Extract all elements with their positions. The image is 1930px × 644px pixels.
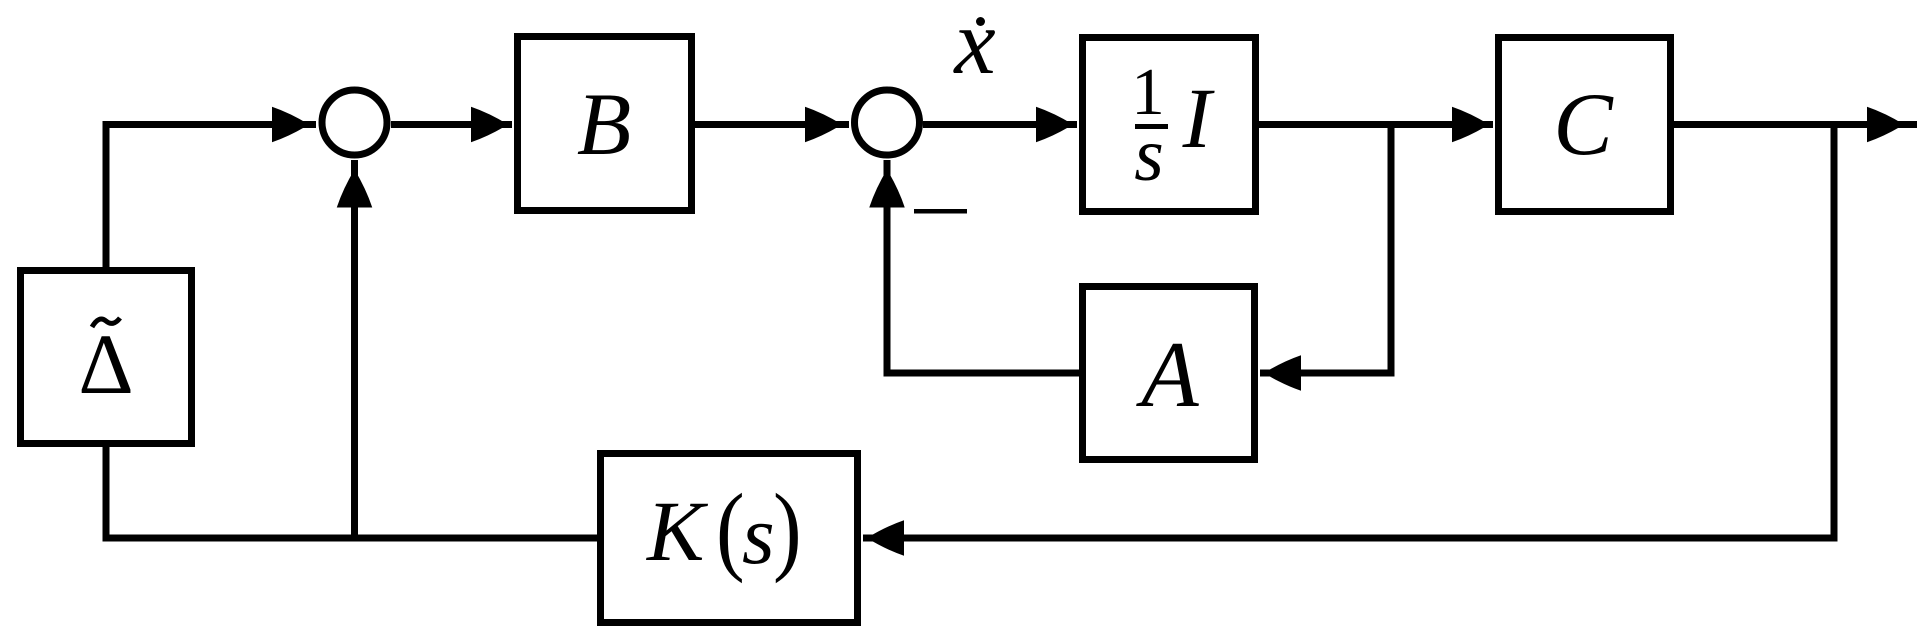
block A [1083,287,1255,460]
wire: block B to summing node S2 [695,121,849,128]
svg-text:K: K [645,483,709,579]
arrowhead into integrator block [1036,107,1073,143]
svg-text:s: s [1134,113,1164,197]
integrator block 1/s I [1083,38,1256,212]
output arrowhead [1867,107,1904,143]
arrowhead into block B [471,107,508,143]
block B [518,37,692,211]
wire: uncertainty output up from Delta-tilde top, then right into summing node S1 [106,125,316,271]
block K(s) [601,454,858,623]
wire: summing node S1 to block B [391,121,512,128]
svg-text:I: I [1182,70,1215,166]
arrowhead into summing node S2 (left input) [805,107,842,143]
dot of x-dot [976,17,985,26]
summing node S2 [855,90,920,155]
fraction bar [1135,124,1168,129]
wire: integrator to block C with branch node down to A [1259,121,1493,128]
svg-text:): ) [773,475,802,585]
wire: branch from integrator output down and left into block A [1260,125,1391,374]
svg-text:Δ: Δ [78,316,133,412]
arrowhead into summing node S1 (bottom input) [337,170,373,208]
svg-text:x: x [952,0,995,94]
svg-text:A: A [1135,323,1199,427]
arrowhead into block K(s) (right input) [867,520,904,556]
block C [1499,38,1671,212]
wire: feedback from output branch down and left into K(s) [863,125,1834,539]
arrowhead into block A (right input) [1264,355,1301,391]
wire: summing node S2 to integrator block [923,121,1077,128]
arrowhead into summing node S1 (left input) [272,107,309,143]
summing node S1 [322,90,387,155]
block Delta-tilde [21,271,192,444]
svg-text:(: ( [716,475,745,585]
svg-text:B: B [577,76,631,174]
arrowhead into summing node S2 (bottom input) [869,170,905,208]
wire: block A output left then up into summing node S2 bottom [887,160,1079,373]
wire: branch from bottom feedback up into summing node S1 bottom [351,160,358,538]
tilde above Delta [92,318,120,327]
arrowhead into block C [1452,107,1489,143]
minus sign at S2 bottom input [914,209,967,214]
wire: block C to output with feedback branch node [1674,121,1917,128]
wire: K(s) output left along bottom, up into Delta-tilde bottom [106,444,597,538]
svg-text:C: C [1553,76,1614,174]
svg-text:s: s [742,489,775,582]
